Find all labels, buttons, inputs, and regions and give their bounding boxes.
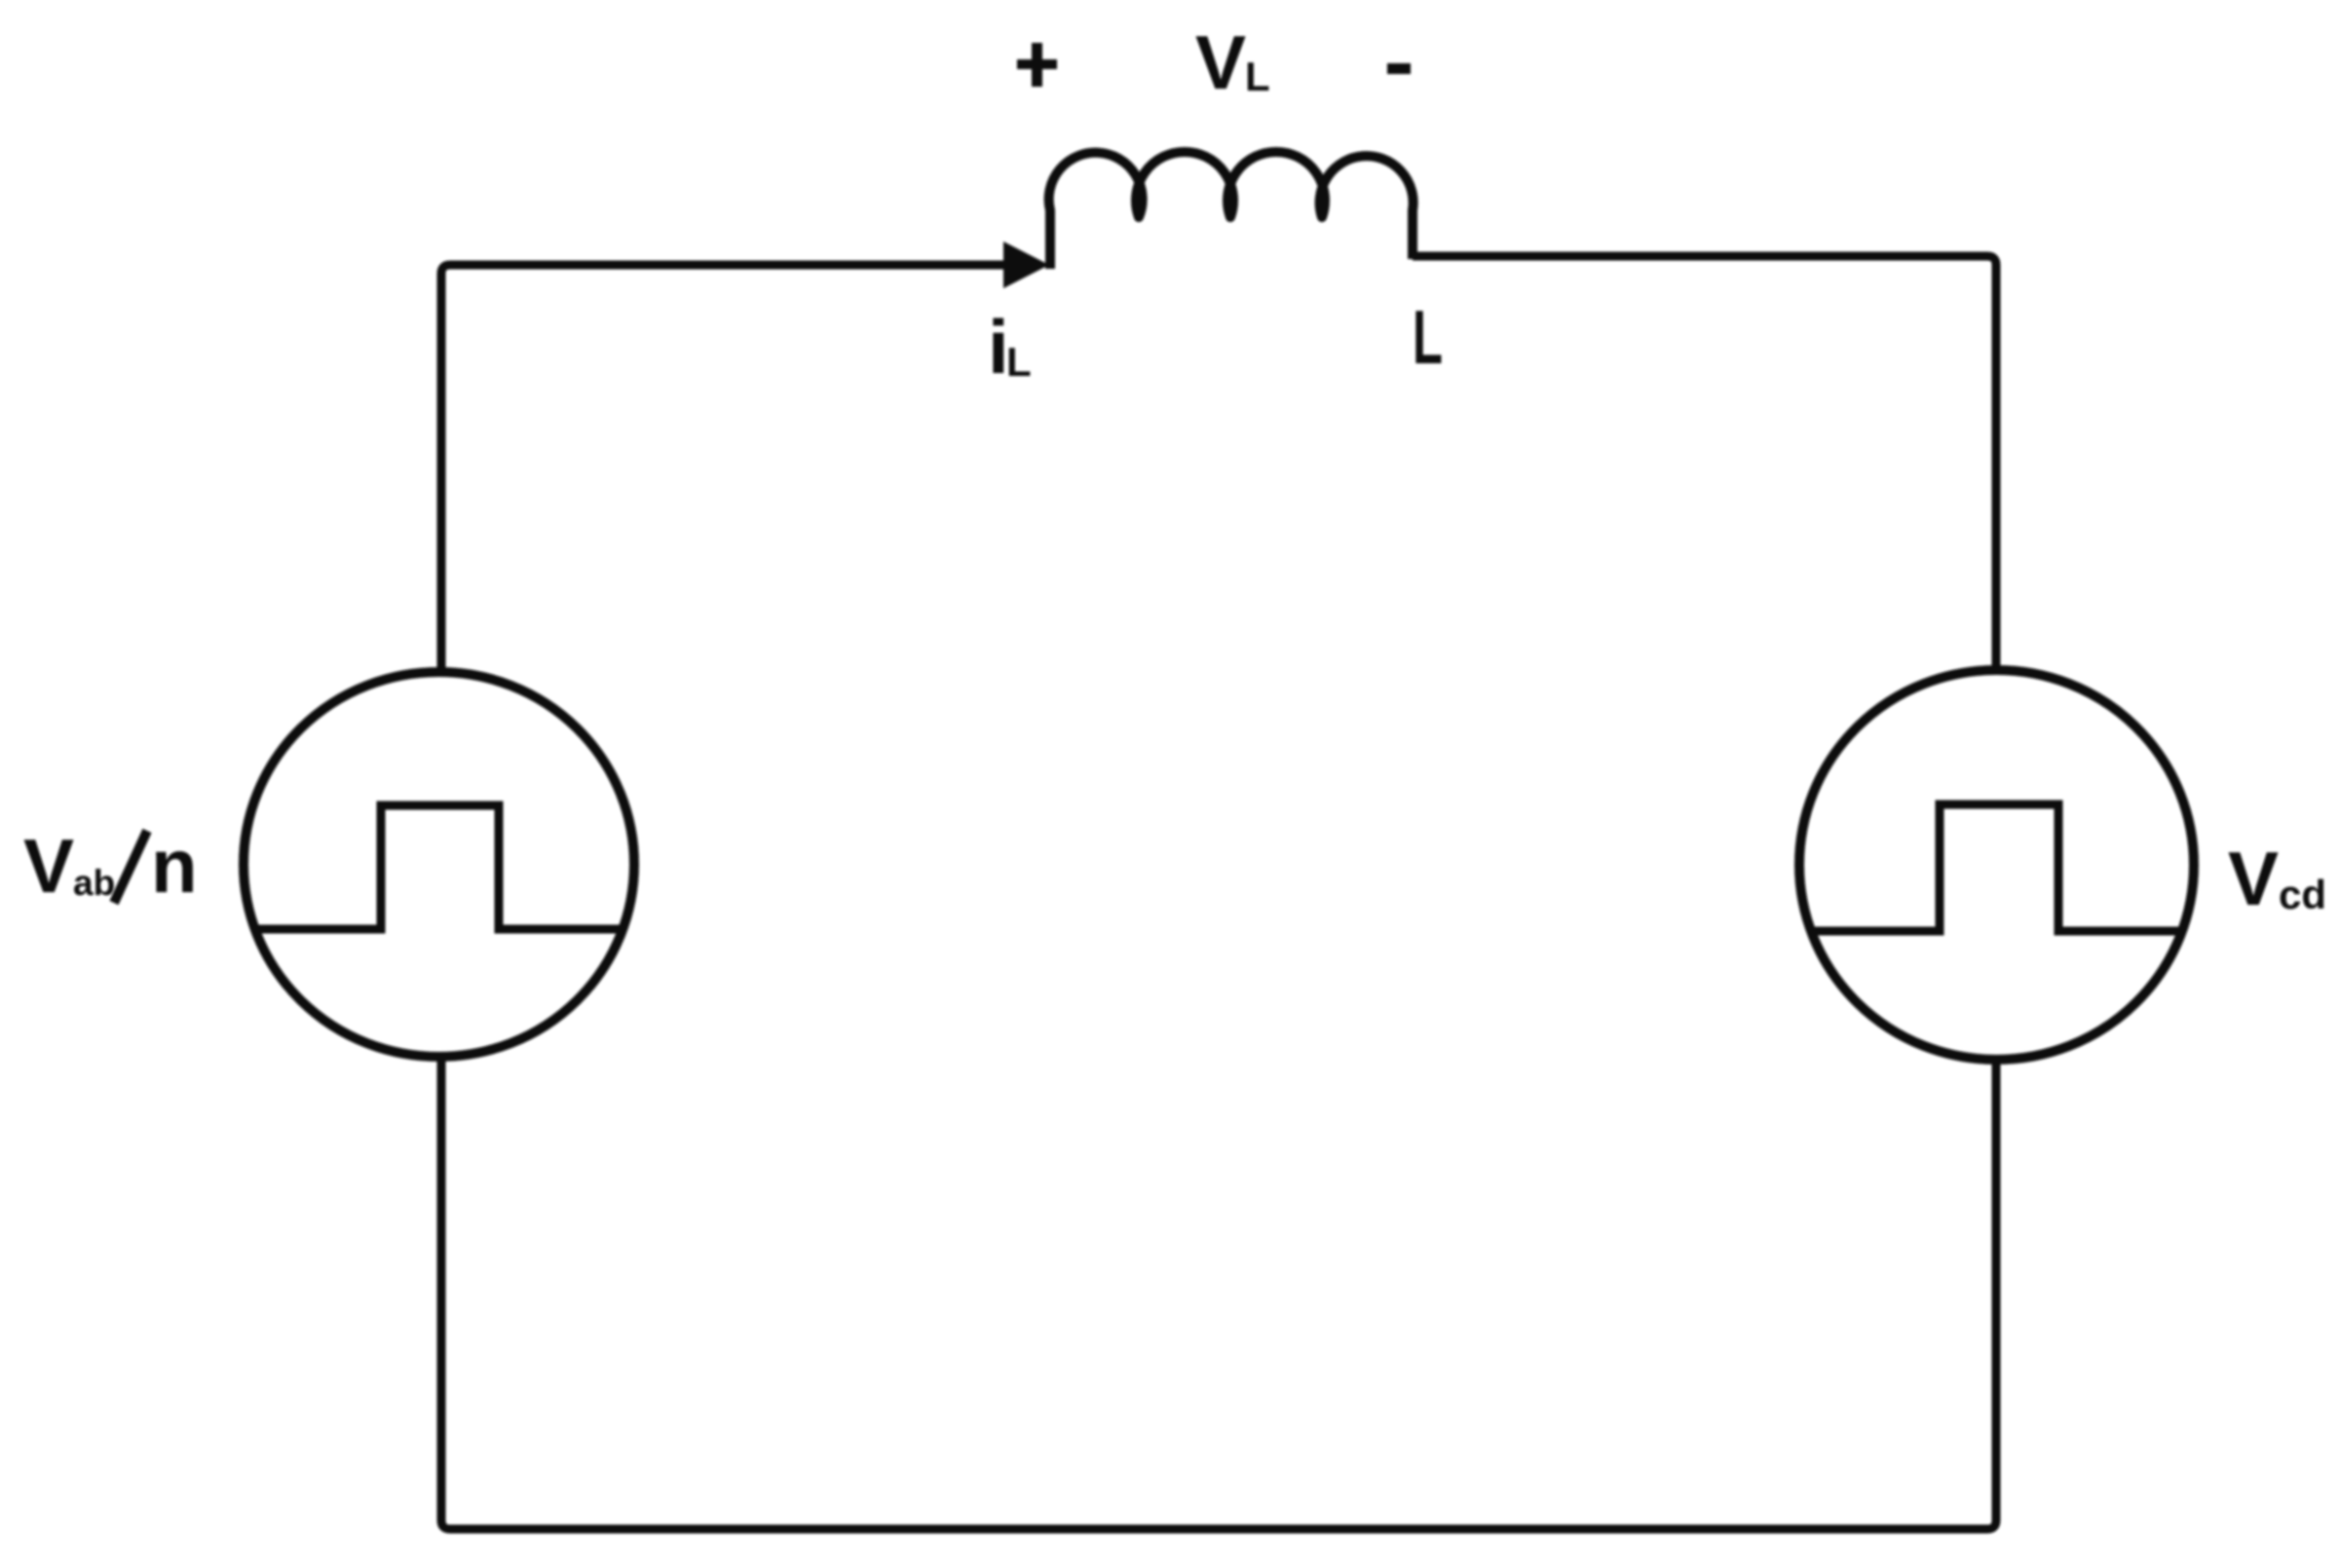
- wire: top-left segment from left corner to arrow: [441, 265, 1006, 672]
- label + (plus, above inductor left): [1017, 43, 1057, 87]
- source V_cd circle: [1799, 670, 2194, 1060]
- svg-text:V: V: [1195, 19, 1246, 105]
- label - (minus, above inductor right): [1387, 63, 1411, 74]
- svg-text:L: L: [1413, 294, 1443, 380]
- svg-text:L: L: [1006, 339, 1032, 385]
- inductor L: left lead, 4 loops, right lead: [1049, 152, 1414, 269]
- square pulse symbol inside right source: [1811, 804, 2183, 931]
- svg-text:cd: cd: [2279, 872, 2326, 917]
- square pulse symbol inside left source: [253, 805, 622, 929]
- svg-text:L: L: [1245, 54, 1270, 99]
- svg-text:V: V: [2228, 836, 2279, 921]
- current arrow head iL: [1003, 242, 1049, 288]
- svg-text:n: n: [151, 823, 198, 909]
- wire: top-right segment from inductor to right corner and down to circle: [1413, 256, 1996, 670]
- wire: left vertical below circle down to bottom-left corner and bottom wire: [441, 1057, 1996, 1529]
- svg-text:ab: ab: [73, 863, 115, 903]
- source V_ab/n circle: [244, 672, 634, 1057]
- svg-text:V: V: [23, 823, 74, 909]
